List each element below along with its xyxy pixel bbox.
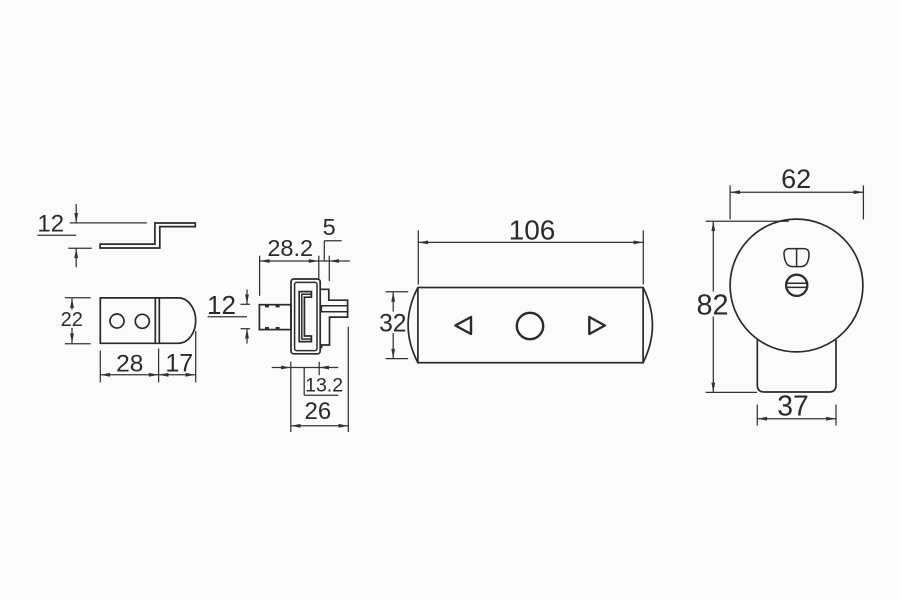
svg-text:106: 106 (509, 214, 556, 245)
svg-text:22: 22 (61, 309, 83, 331)
svg-text:12: 12 (207, 290, 236, 320)
svg-text:32: 32 (379, 311, 406, 338)
svg-text:62: 62 (781, 164, 811, 194)
svg-text:37: 37 (777, 389, 808, 421)
svg-text:12: 12 (37, 210, 64, 237)
svg-text:5: 5 (323, 214, 336, 240)
svg-text:28.2: 28.2 (267, 235, 313, 261)
svg-text:26: 26 (305, 398, 332, 425)
svg-text:28: 28 (116, 351, 143, 378)
svg-text:17: 17 (165, 350, 193, 378)
svg-text:82: 82 (696, 289, 728, 321)
svg-text:13.2: 13.2 (305, 375, 343, 397)
